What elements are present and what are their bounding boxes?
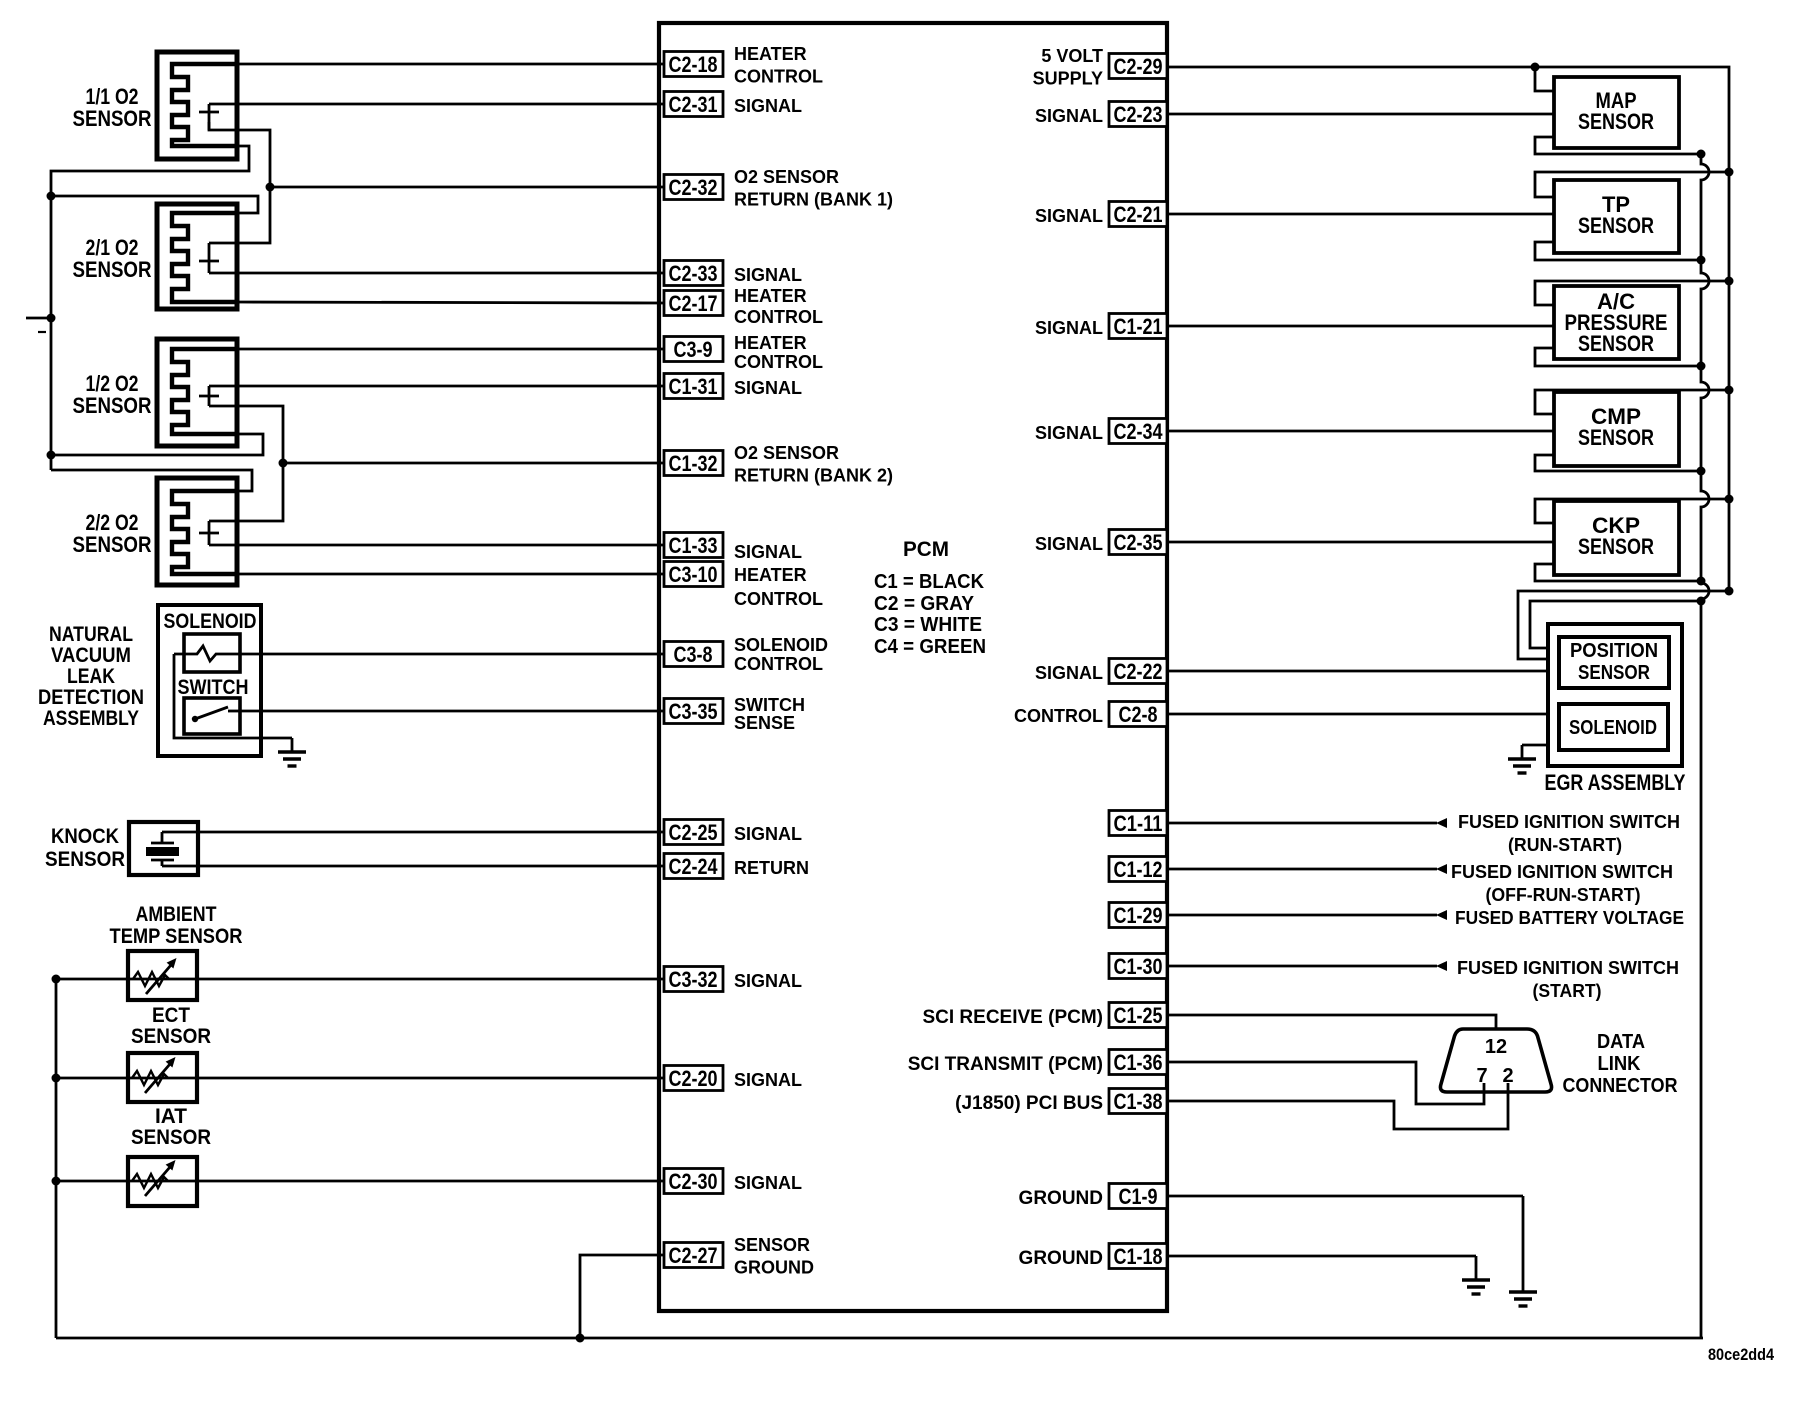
pin C1-21 <box>1109 314 1167 339</box>
wire 2/2 O2 signal to C1-33 <box>209 544 664 547</box>
thermistor symbol IAT sensor <box>132 1160 176 1196</box>
data link connector body <box>1440 1029 1551 1092</box>
wire small dash mark <box>38 331 46 333</box>
NVLD solenoid box <box>184 634 240 672</box>
pin C2-18 <box>664 52 723 77</box>
svg-text:C4 = GREEN: C4 = GREEN <box>874 636 986 658</box>
pin C1-11 <box>1109 811 1167 836</box>
svg-text:C3-10: C3-10 <box>669 562 718 587</box>
svg-text:CONTROL: CONTROL <box>734 654 823 674</box>
svg-text:O2 SENSOR: O2 SENSOR <box>734 443 839 463</box>
ECT sensor box <box>128 1053 197 1102</box>
ground C1-18 chassis ground <box>1462 1256 1490 1294</box>
wire ground rail to EGR position sensor <box>1530 601 1701 648</box>
node TP ground junction <box>1697 256 1706 265</box>
wire C1-21 signal to A/C pressure sensor <box>1150 325 1554 328</box>
wire TP sensor ground to ground rail <box>1535 242 1701 260</box>
svg-text:SENSOR: SENSOR <box>73 257 152 282</box>
pin C2-33 <box>664 261 723 286</box>
svg-text:C1 = BLACK: C1 = BLACK <box>874 571 985 593</box>
svg-text:C2-21: C2-21 <box>1114 202 1163 227</box>
svg-text:SENSOR: SENSOR <box>1578 213 1654 238</box>
svg-text:RETURN (BANK 2): RETURN (BANK 2) <box>734 466 893 486</box>
CKP sensor box <box>1554 501 1679 575</box>
wire rail tick stub <box>26 317 51 320</box>
wire knock sensor signal to C2-25 <box>162 831 664 834</box>
knock sensor box <box>129 822 198 875</box>
wire CMP sensor ground to ground rail <box>1535 455 1701 471</box>
wire C2-22 signal to EGR position sensor <box>1150 670 1559 673</box>
wire 2/1 O2 signal to C2-33 <box>209 272 664 275</box>
pin C3-10 <box>664 562 723 587</box>
svg-text:C1-31: C1-31 <box>669 374 718 399</box>
ground EGR chassis ground <box>1508 745 1536 773</box>
svg-text:C1-9: C1-9 <box>1119 1184 1158 1209</box>
svg-text:TEMP SENSOR: TEMP SENSOR <box>110 925 243 948</box>
svg-text:SENSOR: SENSOR <box>73 532 152 557</box>
wire C1-25 SCI receive to DLC pin 12 <box>1150 1015 1496 1032</box>
wire A/C pressure sensor ground to ground rail <box>1535 348 1701 366</box>
svg-text:CONTROL: CONTROL <box>1014 706 1103 726</box>
svg-text:C1-29: C1-29 <box>1114 903 1163 928</box>
wire MAP sensor ground to ground rail <box>1535 137 1701 154</box>
svg-text:C3-8: C3-8 <box>674 642 713 667</box>
node IAT to rail <box>52 1177 61 1186</box>
pin C3-32 <box>664 967 723 992</box>
wire 1/1 O2 heater ground to left rail <box>51 146 249 470</box>
svg-text:SENSOR: SENSOR <box>1578 534 1654 559</box>
wire 2/1 O2 heater control to C2-17 <box>237 302 664 303</box>
node ground bus junction <box>576 1334 585 1343</box>
pin C1-29 <box>1109 903 1167 928</box>
svg-text:C2-25: C2-25 <box>669 820 718 845</box>
ground NVLD chassis ground <box>278 738 306 766</box>
pin C2-23 <box>1109 102 1167 127</box>
CMP sensor box <box>1554 392 1679 466</box>
PCM module box <box>659 23 1167 1311</box>
wire C1-11 fused ignition switch (run-start) <box>1150 822 1437 825</box>
svg-text:C2-17: C2-17 <box>669 291 718 316</box>
pin C2-34 <box>1109 419 1167 444</box>
svg-text:GROUND: GROUND <box>734 1258 814 1278</box>
svg-text:C1-11: C1-11 <box>1114 811 1163 836</box>
svg-text:C3-35: C3-35 <box>669 699 718 724</box>
svg-text:IAT: IAT <box>155 1105 187 1128</box>
node ECT to rail <box>52 1074 61 1083</box>
svg-text:C2-20: C2-20 <box>669 1066 718 1091</box>
svg-text:C2-27: C2-27 <box>669 1243 718 1268</box>
svg-text:C3-9: C3-9 <box>674 337 713 362</box>
pin C2-32 <box>664 175 723 200</box>
svg-text:C1-38: C1-38 <box>1114 1089 1163 1114</box>
pin C2-25 <box>664 820 723 845</box>
pin C2-30 <box>664 1169 723 1194</box>
svg-text:SENSOR: SENSOR <box>73 393 152 418</box>
svg-text:SIGNAL: SIGNAL <box>1035 318 1103 338</box>
svg-text:SENSOR: SENSOR <box>131 1126 211 1149</box>
pin C2-24 <box>664 854 723 879</box>
pin C3-8 <box>664 642 723 667</box>
pin C1-32 <box>664 451 723 476</box>
node bank1 return junction <box>266 183 275 192</box>
svg-text:GROUND: GROUND <box>1019 1188 1103 1209</box>
svg-text:C2-34: C2-34 <box>1114 419 1164 444</box>
svg-text:C2-31: C2-31 <box>669 92 718 117</box>
svg-text:SIGNAL: SIGNAL <box>734 96 802 116</box>
node EGR ground junction <box>1697 597 1706 606</box>
svg-text:SIGNAL: SIGNAL <box>734 542 802 562</box>
wire NVLD switch sense to C3-35 <box>240 710 664 713</box>
svg-text:FUSED BATTERY VOLTAGE: FUSED BATTERY VOLTAGE <box>1455 908 1684 928</box>
svg-text:C1-18: C1-18 <box>1114 1244 1163 1269</box>
pin C1-12 <box>1109 857 1167 882</box>
wire bank2 junction down to 2/2 O2 return <box>209 463 283 521</box>
svg-text:SENSOR: SENSOR <box>131 1025 211 1048</box>
wire CKP sensor ground to ground rail <box>1535 564 1701 581</box>
svg-text:SIGNAL: SIGNAL <box>1035 423 1103 443</box>
svg-text:LEAK: LEAK <box>67 665 115 688</box>
svg-text:5 VOLT: 5 VOLT <box>1041 46 1103 66</box>
plus symbol 1/2 O2 <box>199 386 219 406</box>
wire ambient temp sensor signal to C3-32 <box>56 978 664 981</box>
svg-text:KNOCK: KNOCK <box>51 825 119 848</box>
node CMP supply tap <box>1725 386 1734 395</box>
node A/C ground junction <box>1697 362 1706 371</box>
node ambient to rail <box>52 975 61 984</box>
pin C1-31 <box>664 374 723 399</box>
svg-text:C2-22: C2-22 <box>1114 659 1163 684</box>
EGR position sensor box <box>1559 637 1669 688</box>
svg-text:12: 12 <box>1485 1036 1507 1058</box>
svg-text:(OFF-RUN-START): (OFF-RUN-START) <box>1486 885 1641 905</box>
svg-text:C2-24: C2-24 <box>669 854 719 879</box>
svg-text:CONTROL: CONTROL <box>734 589 823 609</box>
NVLD solenoid element <box>174 646 240 661</box>
svg-text:C2-18: C2-18 <box>669 52 718 77</box>
svg-text:LINK: LINK <box>1598 1053 1642 1075</box>
MAP sensor box <box>1554 77 1679 148</box>
A/C pressure sensor box <box>1554 286 1679 359</box>
svg-text:AMBIENT: AMBIENT <box>136 903 217 926</box>
EGR assembly box <box>1548 624 1682 766</box>
pin C1-25 <box>1109 1003 1167 1028</box>
svg-text:FUSED IGNITION SWITCH: FUSED IGNITION SWITCH <box>1457 958 1679 978</box>
node CMP ground junction <box>1697 467 1706 476</box>
svg-text:SIGNAL: SIGNAL <box>1035 106 1103 126</box>
wire 1/1 O2 signal to C2-31 <box>209 103 664 106</box>
svg-text:SENSOR: SENSOR <box>1578 425 1654 450</box>
svg-text:2: 2 <box>1502 1065 1513 1087</box>
svg-text:VACUUM: VACUUM <box>51 644 131 667</box>
svg-text:SIGNAL: SIGNAL <box>734 1173 802 1193</box>
O2 sensor 2/2 <box>157 478 237 585</box>
wire C1-18 ground <box>1150 1255 1476 1258</box>
wire IAT sensor signal to C2-30 <box>56 1180 664 1183</box>
pin C1-9 <box>1109 1184 1167 1209</box>
wire supply rail to CMP sensor <box>1535 390 1729 414</box>
wire C2-8 control to EGR solenoid <box>1150 713 1559 716</box>
plus symbol 1/1 O2 <box>199 104 219 130</box>
svg-text:C2-32: C2-32 <box>669 175 718 200</box>
pin C2-27 <box>664 1243 723 1268</box>
svg-text:(J1850) PCI BUS: (J1850) PCI BUS <box>955 1093 1103 1114</box>
svg-text:C2-33: C2-33 <box>669 261 718 286</box>
node MAP supply tap <box>1531 63 1540 72</box>
svg-text:7: 7 <box>1476 1065 1487 1087</box>
svg-text:ASSEMBLY: ASSEMBLY <box>43 707 139 730</box>
svg-text:C3-32: C3-32 <box>669 967 718 992</box>
svg-text:CONTROL: CONTROL <box>734 67 823 87</box>
svg-text:SIGNAL: SIGNAL <box>1035 663 1103 683</box>
svg-text:DETECTION: DETECTION <box>38 686 144 709</box>
wire 1/2 O2 heater ground to left rail <box>51 434 263 455</box>
wire sensor ground bus to C2-27 <box>580 1255 664 1338</box>
svg-text:C2-8: C2-8 <box>1119 702 1158 727</box>
node TP supply tap <box>1725 168 1734 177</box>
svg-text:SENSE: SENSE <box>734 713 795 733</box>
svg-text:PCM: PCM <box>903 538 949 561</box>
svg-text:SCI RECEIVE (PCM): SCI RECEIVE (PCM) <box>922 1007 1103 1028</box>
svg-text:SIGNAL: SIGNAL <box>1035 206 1103 226</box>
svg-text:SENSOR: SENSOR <box>45 848 125 871</box>
wire supply tap to MAP sensor <box>1535 67 1554 91</box>
svg-text:SOLENOID: SOLENOID <box>164 610 257 633</box>
EGR solenoid box <box>1559 704 1668 750</box>
svg-text:EGR ASSEMBLY: EGR ASSEMBLY <box>1545 770 1686 795</box>
svg-text:C2-30: C2-30 <box>669 1169 718 1194</box>
svg-text:C1-21: C1-21 <box>1114 314 1163 339</box>
svg-text:SIGNAL: SIGNAL <box>734 971 802 991</box>
svg-text:HEATER: HEATER <box>734 44 807 64</box>
plus symbol 2/1 O2 <box>199 243 219 273</box>
node A/C supply tap <box>1725 277 1734 286</box>
svg-text:CONTROL: CONTROL <box>734 352 823 372</box>
O2 sensor 2/1 <box>157 204 237 309</box>
wire 1/2 O2 return down to bank2 junction <box>209 406 283 463</box>
wire supply rail to CKP sensor <box>1535 499 1729 523</box>
node rail to 2/1 heater <box>47 192 56 201</box>
svg-text:C2-29: C2-29 <box>1114 54 1163 79</box>
NVLD switch element <box>192 707 240 722</box>
svg-text:CONNECTOR: CONNECTOR <box>1563 1075 1678 1097</box>
wire supply rail to EGR position sensor <box>1518 591 1729 659</box>
wire left rail to 2/1 O2 heater <box>51 196 258 213</box>
svg-text:(RUN-START): (RUN-START) <box>1508 835 1622 855</box>
wire knock sensor return to C2-24 <box>162 865 664 868</box>
svg-text:HEATER: HEATER <box>734 333 807 353</box>
svg-text:NATURAL: NATURAL <box>49 623 133 646</box>
svg-text:SIGNAL: SIGNAL <box>734 1070 802 1090</box>
wire ECT sensor signal to C2-20 <box>56 1077 664 1080</box>
svg-text:SWITCH: SWITCH <box>734 695 805 715</box>
pin C2-35 <box>1109 530 1167 555</box>
svg-text:SIGNAL: SIGNAL <box>734 265 802 285</box>
thermistor symbol ambient temp sensor <box>133 958 177 994</box>
wire bank1 junction down to 2/1 O2 return <box>209 187 270 243</box>
O2 sensor 1/2 <box>157 339 237 446</box>
node CKP ground junction <box>1697 577 1706 586</box>
svg-text:SOLENOID: SOLENOID <box>734 635 828 655</box>
svg-text:SOLENOID: SOLENOID <box>1569 717 1657 739</box>
wire 2/2 O2 heater control to C3-10 <box>237 573 664 576</box>
svg-text:SUPPLY: SUPPLY <box>1033 69 1103 89</box>
svg-text:RETURN (BANK 1): RETURN (BANK 1) <box>734 190 893 210</box>
pin C1-38 <box>1109 1089 1167 1114</box>
svg-text:FUSED IGNITION SWITCH: FUSED IGNITION SWITCH <box>1451 862 1673 882</box>
pin C2-31 <box>664 92 723 117</box>
wire supply rail to A/C pressure sensor <box>1535 281 1729 305</box>
wire bottom sensor ground bus <box>56 1337 1703 1340</box>
pin C1-36 <box>1109 1050 1167 1075</box>
svg-text:RETURN: RETURN <box>734 858 809 878</box>
wire 1/2 O2 heater control to C3-9 <box>230 348 664 351</box>
wire NVLD internal ground <box>174 654 292 738</box>
wire C1-36 SCI transmit to DLC pin 7 <box>1150 1062 1484 1104</box>
svg-text:SIGNAL: SIGNAL <box>734 824 802 844</box>
svg-text:GROUND: GROUND <box>1019 1248 1103 1269</box>
svg-text:(START): (START) <box>1533 981 1602 1001</box>
svg-text:SENSOR: SENSOR <box>734 1235 810 1255</box>
svg-text:SENSOR: SENSOR <box>1578 331 1654 356</box>
wire left rail to 2/2 O2 heater <box>51 470 252 491</box>
wire C1-12 fused ignition switch (off-run-start) <box>1150 868 1437 871</box>
svg-text:80ce2dd4: 80ce2dd4 <box>1708 1345 1774 1364</box>
wire O2 return bank2 to C1-32 <box>283 462 664 465</box>
pin C3-35 <box>664 699 723 724</box>
wire C1-29 fused battery voltage <box>1150 914 1437 917</box>
wire C2-34 signal to CMP sensor <box>1150 430 1554 433</box>
pin C2-17 <box>664 291 723 316</box>
svg-text:HEATER: HEATER <box>734 565 807 585</box>
svg-text:C2-23: C2-23 <box>1114 102 1163 127</box>
pin C1-33 <box>664 533 723 558</box>
wire O2 return bank1 to C2-32 <box>270 186 664 189</box>
pin C2-21 <box>1109 202 1167 227</box>
pin C2-20 <box>664 1066 723 1091</box>
NVLD assembly box <box>158 605 261 756</box>
svg-text:C1-12: C1-12 <box>1114 857 1163 882</box>
svg-text:DATA: DATA <box>1597 1031 1645 1053</box>
svg-text:C2 = GRAY: C2 = GRAY <box>874 593 975 615</box>
svg-text:C1-32: C1-32 <box>669 451 718 476</box>
wire C2-35 signal to CKP sensor <box>1150 541 1554 544</box>
wire temp sensor ground rail <box>55 979 58 1338</box>
DLC pin 2 stub <box>1507 1083 1510 1092</box>
node rail to 1/2 heater <box>47 451 56 460</box>
svg-text:SWITCH: SWITCH <box>178 676 249 699</box>
svg-text:SENSOR: SENSOR <box>1578 662 1650 684</box>
IAT sensor box <box>128 1157 197 1206</box>
wire 1/1 O2 heater control to C2-18 <box>230 63 664 66</box>
svg-text:C3 = WHITE: C3 = WHITE <box>874 614 982 636</box>
wire C2-29 5 volt supply and supply rail <box>1150 67 1729 591</box>
svg-text:SIGNAL: SIGNAL <box>734 378 802 398</box>
wire C2-21 signal to TP sensor <box>1150 213 1554 216</box>
svg-text:HEATER: HEATER <box>734 286 807 306</box>
svg-text:SIGNAL: SIGNAL <box>1035 534 1103 554</box>
TP sensor box <box>1554 180 1679 253</box>
wire C1-9 ground <box>1150 1195 1523 1198</box>
ground C1-9 chassis ground <box>1509 1196 1537 1306</box>
svg-text:C1-30: C1-30 <box>1114 954 1163 979</box>
node rail tick <box>47 314 56 323</box>
O2 sensor 1/1 <box>157 52 237 159</box>
svg-text:SCI TRANSMIT (PCM): SCI TRANSMIT (PCM) <box>908 1054 1103 1075</box>
pin C1-30 <box>1109 954 1167 979</box>
wire 1/1 O2 return down to bank1 junction <box>209 122 270 187</box>
svg-text:C1-36: C1-36 <box>1114 1050 1163 1075</box>
knock sensor piezo element <box>146 832 179 866</box>
svg-text:C2-35: C2-35 <box>1114 530 1163 555</box>
pin C1-18 <box>1109 1244 1167 1269</box>
wire EGR solenoid to chassis ground <box>1522 744 1559 747</box>
svg-text:C1-33: C1-33 <box>669 533 718 558</box>
wire supply rail to TP sensor <box>1535 172 1729 197</box>
wire C1-30 fused ignition switch (start) <box>1150 965 1437 968</box>
ambient temp sensor box <box>128 951 197 1000</box>
wire NVLD solenoid control to C3-8 <box>240 653 664 656</box>
pin C3-9 <box>664 337 723 362</box>
pin C2-8 <box>1109 702 1167 727</box>
NVLD switch box <box>184 698 240 734</box>
thermistor symbol ECT sensor <box>132 1057 176 1093</box>
svg-text:FUSED IGNITION SWITCH: FUSED IGNITION SWITCH <box>1458 812 1680 832</box>
svg-text:SENSOR: SENSOR <box>73 106 152 131</box>
node MAP ground junction <box>1697 150 1706 159</box>
svg-text:CONTROL: CONTROL <box>734 307 823 327</box>
wire C2-23 signal to MAP sensor <box>1150 113 1554 116</box>
svg-text:O2 SENSOR: O2 SENSOR <box>734 167 839 187</box>
plus symbol 2/2 O2 <box>199 521 219 545</box>
svg-text:ECT: ECT <box>152 1004 190 1027</box>
wire right ground rail with hops <box>1701 154 1709 1338</box>
svg-text:POSITION: POSITION <box>1570 640 1658 662</box>
node CKP supply tap <box>1725 495 1734 504</box>
svg-text:SENSOR: SENSOR <box>1578 109 1654 134</box>
svg-text:C1-25: C1-25 <box>1114 1003 1163 1028</box>
wire 1/2 O2 signal to C1-31 <box>209 385 664 388</box>
node supply rail end <box>1725 587 1734 596</box>
pin C2-22 <box>1109 659 1167 684</box>
DLC pin 7 stub <box>1483 1083 1486 1092</box>
wire C1-38 PCI bus to DLC pin 2 <box>1150 1089 1508 1129</box>
pin C2-29 <box>1109 54 1167 79</box>
node bank2 return junction <box>279 459 288 468</box>
